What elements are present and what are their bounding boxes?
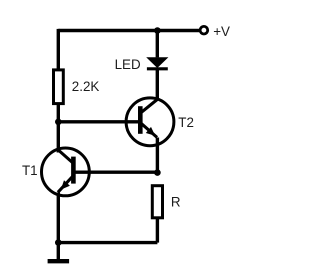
transistor T1 [42,148,90,243]
svg-text:T2: T2 [178,115,194,130]
ground [48,259,70,263]
svg-text:R: R [171,195,181,210]
node junction left rail / T2 base [55,119,62,126]
svg-text:T1: T1 [22,163,38,178]
node junction top (LED branch) [154,27,161,34]
wire T1 base wire [73,170,157,173]
svg-text:LED: LED [115,57,141,72]
svg-text:2.2K: 2.2K [72,79,100,94]
resistor 2.2K [54,70,64,104]
wire R bottom lead [156,218,159,243]
wire left rail upper [57,29,60,70]
LED [146,29,168,101]
terminal +V [200,26,208,34]
transistor T2 [126,98,174,174]
wire top rail [58,29,199,32]
wire bottom rail [58,241,157,244]
node junction T2 emitter / T1 base / R [154,169,161,176]
wire T2 base wire [58,120,140,123]
resistor R [152,186,162,218]
wire left rail mid [57,105,60,153]
node junction ground [55,239,62,246]
svg-text:+V: +V [213,24,230,39]
wire ground stub [57,243,60,260]
